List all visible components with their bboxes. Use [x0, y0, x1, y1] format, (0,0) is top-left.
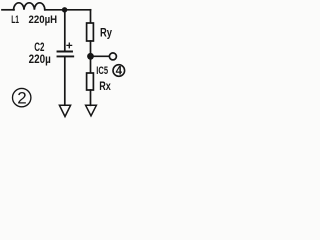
ground left [59, 105, 70, 116]
inductor L1 [14, 3, 45, 10]
node B junction dot [87, 53, 94, 60]
pin 4 circle [113, 65, 125, 77]
svg-text:4: 4 [116, 66, 123, 78]
svg-text:220µ: 220µ [29, 52, 51, 66]
node A junction dot [62, 7, 67, 12]
wire top to corner [45, 9, 91, 11]
svg-text:Ry: Ry [100, 27, 112, 39]
plus sign [67, 43, 72, 48]
resistor Rx [87, 73, 94, 90]
ground right [86, 105, 97, 116]
figure number circle 2 [13, 88, 31, 106]
wire Ry to node B [90, 41, 92, 56]
wire C2 to ground [64, 57, 66, 105]
resistor Ry [87, 23, 94, 41]
wire node A down to C2 [64, 10, 66, 51]
wire Rx to ground [90, 90, 92, 105]
wire top left stub [2, 9, 14, 11]
svg-text:IC5: IC5 [96, 65, 108, 77]
terminal circle [109, 53, 116, 60]
wire node B down to Rx [90, 56, 92, 73]
wire down to Ry [90, 10, 92, 23]
svg-text:Rx: Rx [99, 81, 111, 93]
capacitor C2 plates [58, 51, 73, 53]
svg-text:L1: L1 [11, 14, 19, 26]
wire node B to terminal [91, 55, 109, 57]
svg-text:220µH: 220µH [29, 14, 58, 26]
svg-text:2: 2 [17, 88, 26, 107]
